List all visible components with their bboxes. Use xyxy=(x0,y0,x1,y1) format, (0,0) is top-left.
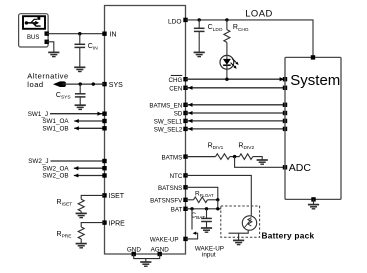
ground GND/AGND xyxy=(140,262,151,266)
svg-text:Battery pack: Battery pack xyxy=(262,230,315,240)
wire CEN to System xyxy=(186,87,286,89)
arrow SW_SEL2 input xyxy=(188,127,193,131)
System pin SW_SEL2 xyxy=(283,127,287,131)
svg-text:SW1_OB: SW1_OB xyxy=(42,126,68,133)
System pin CEN xyxy=(283,86,287,90)
pin AGND xyxy=(158,252,162,256)
wire R_FLOAT to BATSNS xyxy=(208,199,218,201)
resistor R_DIV1 xyxy=(216,154,230,160)
wire SW1_J xyxy=(50,113,105,115)
junction BAT / C_BAT xyxy=(205,207,208,210)
wire SW_SEL1 to System xyxy=(186,120,286,122)
pin CHG xyxy=(183,77,187,81)
LED light arrows xyxy=(232,59,237,64)
svg-text:RDIV1: RDIV1 xyxy=(208,142,224,151)
wire R_CHG to LED xyxy=(226,42,228,55)
svg-text:BUS: BUS xyxy=(27,35,39,41)
System pin SD xyxy=(283,111,287,115)
resistor R_DIV2 xyxy=(239,154,252,160)
wire BATSNS down to BAT xyxy=(217,200,219,209)
wire SW2_OB xyxy=(74,175,105,177)
wire CHG to System xyxy=(186,78,286,80)
wire SW2_J xyxy=(51,160,105,162)
pin SW_SEL2 xyxy=(183,127,187,131)
wire BUS pin2 to ground xyxy=(47,42,54,52)
pin ISET xyxy=(102,193,106,197)
svg-text:ADC: ADC xyxy=(289,162,312,174)
wire ISET to R_ISET xyxy=(81,195,104,199)
ground C_LDO xyxy=(194,52,205,56)
wire GND AGND to ground xyxy=(134,254,160,262)
arrow alternative load xyxy=(53,81,66,87)
USB trident icon xyxy=(25,17,41,26)
svg-text:SD: SD xyxy=(174,111,183,118)
svg-text:BATSNS: BATSNS xyxy=(158,185,182,192)
arrow SW2_OA output xyxy=(74,166,79,170)
svg-text:RCHG: RCHG xyxy=(233,24,249,33)
svg-text:SW_SEL2: SW_SEL2 xyxy=(154,127,183,134)
wire thermistor to pack ground xyxy=(229,230,249,240)
svg-text:CHG: CHG xyxy=(169,77,183,84)
capacitor C_BAT xyxy=(206,209,208,219)
svg-text:SW2_J: SW2_J xyxy=(28,158,48,165)
arrow CEN input xyxy=(188,86,193,90)
pin BUS GND xyxy=(45,40,49,44)
capacitor C_LDO xyxy=(198,20,200,28)
pin BATMS xyxy=(183,154,187,158)
junction IN / C_IN xyxy=(78,32,81,35)
System pin SW_SEL1 xyxy=(283,119,287,123)
junction SYS / C_SYS xyxy=(79,82,82,85)
svg-text:CEN: CEN xyxy=(169,86,182,93)
svg-text:BATMS_EN: BATMS_EN xyxy=(149,103,182,110)
svg-text:AGND: AGND xyxy=(151,247,170,254)
wire NTC to thermistor xyxy=(186,175,252,216)
pin BAT xyxy=(183,207,187,211)
wire BATSNS xyxy=(186,187,218,200)
pin WAKE-UP xyxy=(183,237,187,241)
capacitor C_IN xyxy=(79,34,81,45)
resistor R_ISET xyxy=(78,199,84,211)
svg-text:SW2_OB: SW2_OB xyxy=(42,173,68,180)
svg-text:RDIV2: RDIV2 xyxy=(238,142,254,151)
svg-text:CSYS: CSYS xyxy=(56,92,71,101)
pin SW1_J xyxy=(102,112,106,116)
wire SD to System xyxy=(186,112,286,114)
System pin BATMS_EN xyxy=(283,103,287,107)
svg-text:SW2_OA: SW2_OA xyxy=(42,165,69,172)
wire LED to CHG net xyxy=(226,69,228,79)
wire SW_SEL2 to System xyxy=(186,128,286,130)
pin BATSNSFV xyxy=(183,198,187,202)
arrow SD input xyxy=(188,111,193,115)
wire BATMS to R_DIV1 xyxy=(186,156,216,158)
svg-text:SW1_J: SW1_J xyxy=(28,111,48,118)
svg-text:load: load xyxy=(27,80,43,89)
svg-text:IPRE: IPRE xyxy=(109,220,126,227)
capacitor C_SYS xyxy=(79,84,81,94)
ground System xyxy=(308,205,319,209)
LED D1 xyxy=(220,55,234,69)
junction SYS xyxy=(92,82,95,85)
svg-text:GND: GND xyxy=(127,247,141,254)
switch S1 wake-up xyxy=(186,233,198,239)
wire BATMS_EN to System xyxy=(186,104,286,106)
wire LDO to R_CHG xyxy=(226,20,228,30)
svg-text:System: System xyxy=(290,72,340,89)
thermistor NTC in pack xyxy=(242,216,256,230)
pin SW1_OB xyxy=(102,126,106,130)
wire BATSNSFV to R_FLOAT xyxy=(186,199,194,201)
System pin GND bottom xyxy=(311,197,315,201)
ground R_PRE xyxy=(76,244,87,248)
wire SW1_OB xyxy=(74,127,104,129)
pin CEN xyxy=(183,86,187,90)
svg-text:SYS: SYS xyxy=(109,82,123,89)
wire LDO to System (LOAD net) xyxy=(186,20,314,58)
wire SYS net xyxy=(63,83,105,85)
svg-text:CLDO: CLDO xyxy=(208,24,223,33)
junction LDO / C_LDO xyxy=(198,18,201,21)
ground C_IN xyxy=(74,67,85,71)
svg-text:BATSNSFV: BATSNSFV xyxy=(150,198,183,205)
svg-text:RPRE: RPRE xyxy=(57,231,72,240)
resistor R_PRE xyxy=(78,227,84,239)
pin IPRE xyxy=(102,220,106,224)
wire IPRE to R_PRE xyxy=(81,223,104,227)
USB connector J1 (BUS) xyxy=(19,14,48,47)
ground battery pack xyxy=(233,240,244,244)
svg-text:CBAT: CBAT xyxy=(191,212,205,221)
ground R_DIV2 xyxy=(257,160,268,164)
ground C_SYS xyxy=(75,105,86,109)
pin BATSNS xyxy=(183,185,187,189)
System pin CHG xyxy=(283,77,287,81)
arrow SW1_OA output xyxy=(74,119,79,123)
pin SD xyxy=(183,111,187,115)
pin BUS VBUS xyxy=(45,31,49,35)
resistor R_FLOAT xyxy=(194,197,208,203)
System pin ADC xyxy=(283,165,287,169)
pin SW2_J xyxy=(102,159,106,163)
wire BUS to IN pin xyxy=(47,33,105,35)
junction BAT / BATSNS xyxy=(216,207,219,210)
svg-text:ISET: ISET xyxy=(109,193,125,200)
System pin LOAD top xyxy=(311,55,315,59)
pin IN xyxy=(102,32,106,36)
battery pack dashed box xyxy=(221,206,260,237)
svg-text:LDO: LDO xyxy=(168,19,182,26)
arrow CHG into System xyxy=(280,77,285,81)
wire SW1_OA xyxy=(74,120,104,122)
svg-text:SW_SEL1: SW_SEL1 xyxy=(154,119,183,126)
junction divider tap xyxy=(233,155,236,158)
pin SW_SEL1 xyxy=(183,119,187,123)
resistor R_CHG xyxy=(224,30,230,43)
svg-text:BAT: BAT xyxy=(171,207,183,214)
junction CHG / LED xyxy=(225,78,228,81)
System box xyxy=(285,57,341,199)
arrow SW2_OB output xyxy=(74,173,79,177)
svg-text:IN: IN xyxy=(110,32,117,39)
pin LDO xyxy=(183,18,187,22)
wire R_DIV1 to R_DIV2 xyxy=(230,156,240,158)
arrow BATMS_EN input xyxy=(188,103,193,107)
wire SW2_OA xyxy=(74,167,105,169)
svg-text:RISET: RISET xyxy=(57,199,73,208)
wire R_ISET to ground xyxy=(80,211,82,213)
wire switch upper contact xyxy=(191,209,193,230)
junction BAT / switch xyxy=(190,207,193,210)
arrow SW1_OB output xyxy=(74,126,79,130)
svg-text:NTC: NTC xyxy=(170,173,183,180)
wire R_DIV2 to ground xyxy=(253,157,263,160)
wire divider tap to ADC xyxy=(235,157,285,168)
svg-text:CIN: CIN xyxy=(88,43,98,52)
pin GND xyxy=(132,252,136,256)
pin BATMS_EN xyxy=(183,103,187,107)
junction LDO / R_CHG xyxy=(225,18,228,21)
ground C_BAT xyxy=(201,228,212,232)
wire R_PRE to ground xyxy=(80,239,82,243)
IC U1 battery charger xyxy=(105,6,186,255)
svg-text:input: input xyxy=(202,252,216,259)
ground R_ISET xyxy=(76,213,87,217)
ground BUS xyxy=(48,52,59,56)
pin SYS xyxy=(102,82,106,86)
svg-text:BATMS: BATMS xyxy=(161,154,182,161)
arrow SW_SEL1 input xyxy=(188,119,193,123)
svg-text:SW1_OA: SW1_OA xyxy=(42,118,69,125)
pin NTC xyxy=(183,173,187,177)
wire BAT to battery pack xyxy=(186,208,221,210)
pin SW2_OB xyxy=(102,173,106,177)
svg-text:RFLOAT: RFLOAT xyxy=(195,190,214,198)
arrow SW1_J input xyxy=(97,112,102,116)
wire System to ground xyxy=(313,199,315,204)
svg-text:LOAD: LOAD xyxy=(245,7,273,18)
pin SW2_OA xyxy=(102,166,106,170)
junction BATSNS/R_FLOAT xyxy=(216,198,219,201)
pin SW1_OA xyxy=(102,119,106,123)
svg-text:WAKE-UP: WAKE-UP xyxy=(150,237,179,244)
